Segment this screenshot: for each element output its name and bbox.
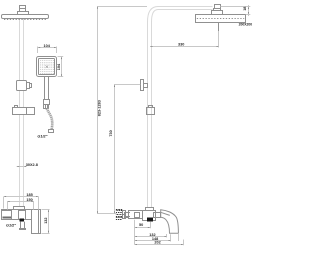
svg-text:202: 202: [154, 241, 160, 245]
svg-text:104: 104: [44, 44, 51, 48]
svg-text:G1/2": G1/2": [37, 134, 47, 138]
svg-text:18: 18: [243, 7, 247, 11]
svg-text:730: 730: [109, 130, 113, 136]
svg-text:823-1283: 823-1283: [97, 100, 101, 116]
svg-text:50: 50: [139, 223, 143, 227]
svg-text:30X2.8: 30X2.8: [26, 163, 38, 167]
svg-text:200X200: 200X200: [239, 23, 253, 27]
svg-text:G1/2": G1/2": [6, 224, 16, 228]
svg-text:330: 330: [178, 42, 184, 46]
svg-text:185: 185: [26, 193, 32, 197]
svg-text:132: 132: [44, 217, 48, 223]
svg-text:104: 104: [57, 63, 61, 70]
svg-text:150: 150: [26, 198, 32, 202]
